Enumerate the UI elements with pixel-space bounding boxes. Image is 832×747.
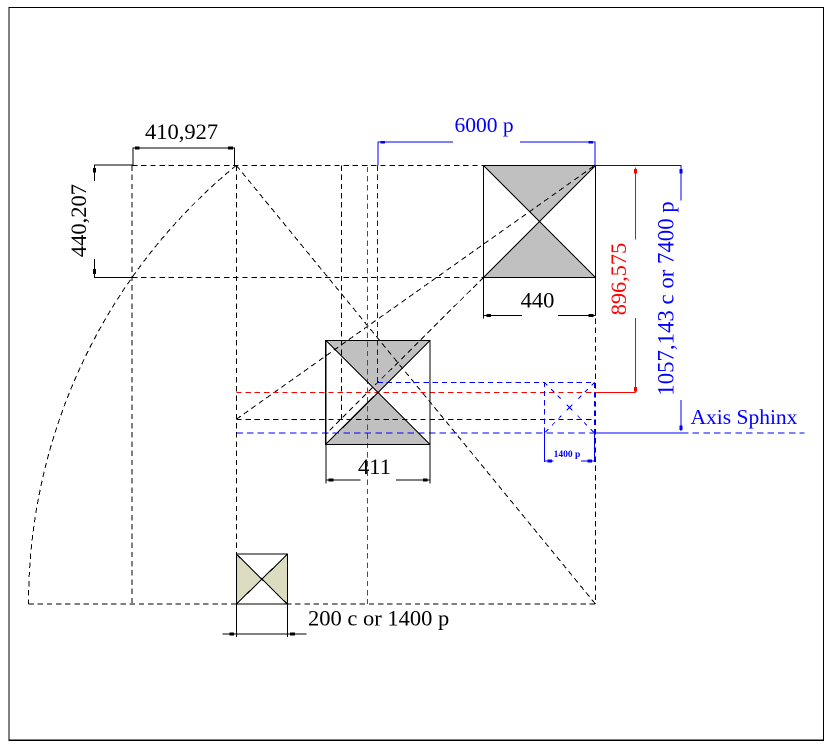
svg-text:1057,143 c or 7400 p: 1057,143 c or 7400 p [654,201,679,395]
diagonal D2 [236,165,595,604]
axis sphinx dashed right part [682,432,805,434]
dashed line V1 x=131.9 [131,165,133,604]
dimension 410,927 [133,148,234,165]
svg-text:411: 411 [358,454,391,479]
axis sphinx dashed left part [236,432,594,434]
dimension 440,207 [95,165,134,277]
Khafre pyramid plan (411) [326,341,430,445]
svg-text:200 c or 1400 p: 200 c or 1400 p [308,605,449,630]
dimension 6000 p (blue) [378,142,595,165]
dashed line H2 y=277.4 [132,276,484,278]
dashed construction lines (black) [28,165,595,604]
dashed arc centered bottom-right corner [29,165,237,604]
dashed line V5 x=595.5 below Khufu [595,319,597,605]
dashed line H4 bottom site line y=604.2 [28,603,595,605]
svg-text:896,575: 896,575 [606,243,631,315]
Sphinx square (blue dashed) [544,382,594,433]
red dashed axes [236,167,594,604]
dimension 411 [326,444,430,483]
red dashed vertical x=367.4 [366,167,368,604]
svg-text:410,927: 410,927 [145,119,218,144]
diagonal D4 45deg [326,277,483,433]
dimension 200 c or 1400 p [222,604,306,637]
dimension 1400 p (blue, sphinx) [544,433,594,462]
pyramid plan fills [236,165,595,604]
svg-text:Axis Sphinx: Axis Sphinx [691,405,798,429]
dashed line H1 top site line y=165.4 [132,164,484,166]
blue dimension 1057,143 c or 7400 p [595,165,682,433]
Menkaure pyramid plan (200c) [236,554,287,604]
blue dashed vertical x=377.4 [376,165,378,382]
dashed line V3 x=341.4 [340,165,342,419]
dashed line H3 y=419.3 [236,418,594,420]
svg-text:1400 p: 1400 p [554,450,581,460]
dashed line V2 x=236.3 [235,165,237,554]
svg-text:6000 p: 6000 p [454,113,513,137]
dimension 440 [483,278,595,319]
diagonal D1 [236,165,595,419]
Khufu pyramid plan (440) [483,165,595,277]
red dashed horizontal y=392.3 [236,391,594,393]
blue dashed horizontal y=382.4 [377,381,544,383]
blue dashed axes [236,165,804,433]
red dimension 896,575 [595,168,636,393]
svg-text:440: 440 [521,288,555,313]
svg-text:440,207: 440,207 [66,184,91,257]
